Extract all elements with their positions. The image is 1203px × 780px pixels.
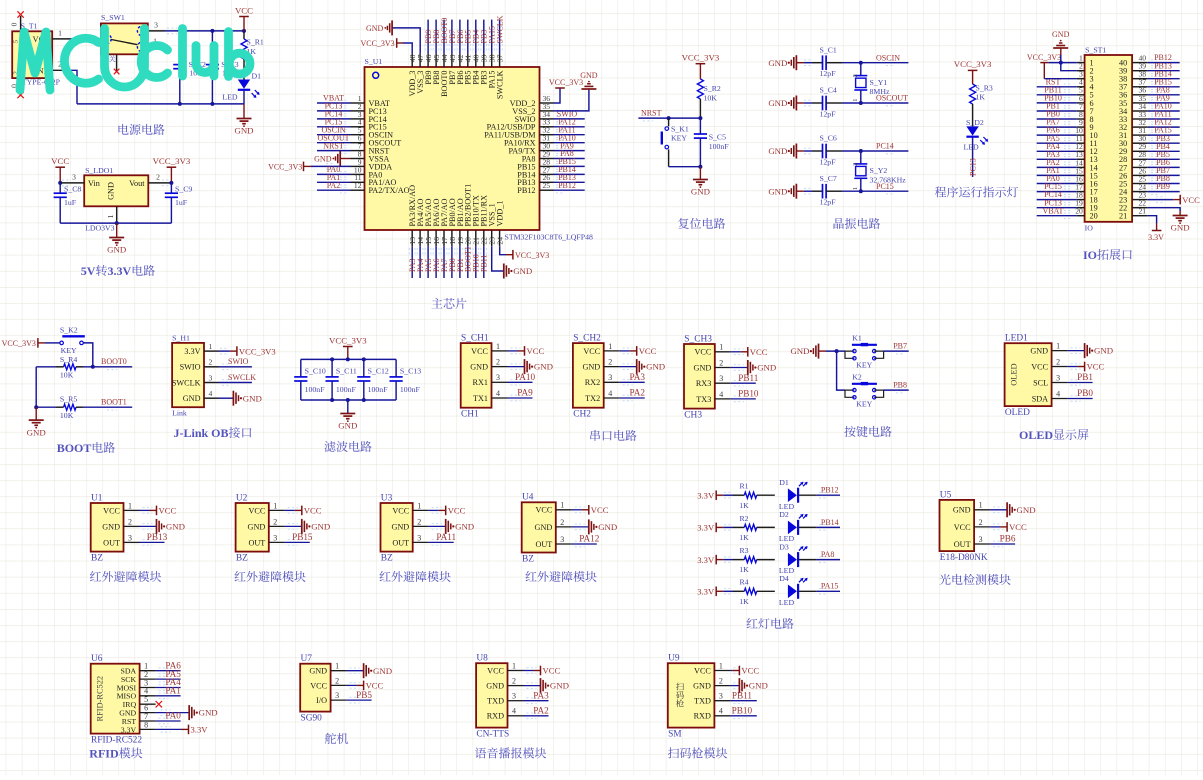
pin 3 (TXD) of U8 (487, 692, 523, 706)
wire U1 pin 30 net PA9 (554, 148, 585, 154)
title servo (325, 733, 348, 744)
svg-text:U4: U4 (522, 493, 534, 503)
net label PB1 (456, 258, 465, 272)
svg-text:PB11: PB11 (732, 690, 752, 700)
svg-text:GND: GND (1017, 505, 1036, 515)
pin 2 (GND) of U2 (248, 517, 285, 531)
net label PB9 (1156, 182, 1170, 191)
wire H1 pin 3 net SWCLK (219, 380, 252, 386)
power port VCC at S_CH1 pin 1 (518, 346, 545, 356)
wire U1 pin 15 net PA5 (425, 246, 431, 278)
net label PA0 (327, 165, 341, 174)
wire ST1 pin 11 net PA5 (1037, 140, 1077, 146)
net label PA7 (1046, 118, 1060, 127)
wire T1 pin2 to ground rail (70, 70, 77, 104)
net label PB13 (1154, 61, 1172, 70)
wire pin 7 net PA0 (156, 718, 181, 724)
junction NRST / C5 (698, 116, 702, 120)
wire ST1 pin 15 net PA1 (1037, 173, 1077, 179)
resistor R2 1K (733, 514, 775, 542)
net label PB10 (472, 254, 481, 272)
svg-text:KEY: KEY (61, 346, 77, 355)
wire U1 pin 17 net PA7 (441, 246, 447, 278)
svg-text:S_K2: S_K2 (60, 325, 78, 334)
ground symbol at U1 VSS_2 (580, 71, 598, 89)
net label PB6 (1156, 158, 1170, 167)
svg-text:GND: GND (183, 394, 201, 403)
svg-text:LED: LED (222, 93, 238, 102)
net label OSCOUT (317, 133, 349, 142)
wire U1 pin 22 net PB11 (481, 246, 487, 278)
ground symbol of key circuit (790, 344, 826, 359)
svg-text:SWIO: SWIO (180, 363, 201, 372)
pin 13 of ST1 (1075, 150, 1084, 159)
wire pin 1 to ground (1068, 348, 1085, 354)
svg-text:0: 0 (10, 22, 19, 26)
resistor S_R1 1K (241, 31, 264, 80)
svg-text:STM32F103C8T6_LQFP48: STM32F103C8T6_LQFP48 (505, 233, 593, 242)
net label PC14 (876, 142, 894, 151)
pin 39 (PB3) of U1 (480, 54, 489, 67)
svg-text:3: 3 (128, 533, 132, 542)
wire filter bottom rail (301, 399, 396, 401)
title main chip (431, 298, 466, 309)
svg-text:GND: GND (314, 155, 332, 164)
pin 1 (GND) of U5 (953, 501, 990, 515)
pin 10 of ST1 (1075, 126, 1084, 135)
pin 25 (PB12) of U1 (540, 181, 554, 190)
junction filter bottom rail (362, 398, 366, 402)
ground symbol at S_C6 (768, 144, 804, 159)
svg-text:1: 1 (1056, 342, 1060, 351)
LED D4 (779, 574, 808, 607)
net label PA5 (165, 669, 181, 679)
pin 36 of ST1 (1132, 86, 1148, 95)
power port VCC of power circuit (235, 5, 253, 31)
wire ST1 pin 33 net PA11 (1148, 116, 1180, 122)
net label PB10 (738, 389, 759, 399)
pin 4 (PC15) of U1 (351, 118, 365, 127)
wire U1 pin 5 net OSCIN (317, 132, 351, 138)
net label PA3 (629, 372, 645, 382)
net label PB7 (893, 341, 907, 350)
title photoelectric detect module (939, 574, 1010, 585)
module U1 (BZ) (91, 493, 124, 563)
net label PA15 (1154, 126, 1172, 135)
svg-text:VCC_3V3: VCC_3V3 (515, 251, 549, 260)
pin 29 (PA8) of U1 (540, 149, 554, 158)
net label PA8 (560, 149, 574, 158)
svg-text:S_CH3: S_CH3 (684, 334, 712, 344)
svg-text:D4: D4 (779, 574, 789, 583)
svg-text:GND: GND (580, 71, 598, 80)
pin 4 (TX2) of S_CH2 (585, 389, 620, 403)
pin 37 (SWCLK) of U1 (496, 54, 505, 67)
wire to key K2 (844, 389, 846, 391)
wire ST1 pin 25 net PB8 (1148, 181, 1180, 187)
svg-text:2: 2 (417, 517, 421, 526)
svg-text:GND: GND (953, 506, 971, 515)
svg-text:K2: K2 (852, 372, 862, 381)
wire pin 1 to power (524, 668, 537, 674)
svg-text:4: 4 (1056, 389, 1060, 398)
svg-text:VCC: VCC (103, 506, 120, 515)
svg-text:3: 3 (560, 535, 564, 544)
net label SWCLK (228, 373, 256, 382)
svg-text:S_C11: S_C11 (336, 367, 357, 376)
wire ST1 pin 5 net PB11 (1037, 92, 1077, 98)
svg-text:2: 2 (335, 676, 339, 685)
svg-text:OUT: OUT (248, 538, 265, 547)
wire ST1 pin 32 net PA12 (1148, 124, 1180, 130)
net label PA2 (629, 388, 645, 398)
svg-text:PA2: PA2 (327, 181, 341, 190)
junction LDO Vout / C9 (169, 181, 173, 185)
capacitor S_C12 100nF (357, 359, 389, 400)
pin 2 (GND) of U8 (486, 677, 523, 691)
pin 3 of S_H1 (204, 373, 219, 382)
net label PA0 (1046, 174, 1060, 183)
wire pin 2 to ground (524, 683, 541, 689)
wire LED to ground rail (243, 91, 245, 104)
svg-text:OLED: OLED (1005, 408, 1030, 418)
push button K2 KEY (845, 372, 884, 408)
wire to key K1 (844, 350, 846, 352)
svg-text:RFID: RFID (89, 747, 119, 761)
wire U1 pin 27 net PB14 (554, 172, 585, 178)
net label PA10 (1154, 102, 1172, 111)
svg-text:U2: U2 (236, 493, 248, 503)
ground symbol at S_CH3 pin 2 (748, 360, 776, 375)
svg-text:VCC_3V3: VCC_3V3 (360, 39, 394, 48)
wire pin 1 to power (730, 668, 743, 674)
svg-text:1K: 1K (739, 565, 749, 574)
wire U1 pin 4 net PC15 (317, 124, 351, 130)
pin 40 (PB4) of U1 (472, 54, 481, 67)
svg-text:TX2: TX2 (585, 394, 600, 403)
wire U1 pin 12 net PA2 (317, 187, 351, 193)
net label PB10 (732, 706, 753, 716)
wire pin 2 to ground (285, 524, 302, 530)
resistor R3 1K (733, 546, 775, 574)
svg-text:GND: GND (234, 126, 253, 136)
svg-text:GND: GND (534, 362, 553, 372)
wire ground rail vertical (35, 367, 37, 407)
pin 3 (OUT) of U5 (954, 535, 990, 549)
pin 3 (RX2) of S_CH2 (585, 373, 620, 387)
svg-text:1K: 1K (739, 597, 749, 606)
pin 19 (PB1/AO) of U1 (456, 230, 465, 246)
pin 14 of ST1 (1075, 158, 1084, 167)
power port VCC at LDO input (51, 156, 69, 183)
svg-text:GND: GND (1052, 30, 1070, 39)
wire U1 pin 1 net VBAT (317, 100, 351, 106)
connector S_ST1 40-pin header (1085, 46, 1133, 233)
svg-text:S_Y2: S_Y2 (870, 166, 888, 175)
wire U1 VSS_1 to ground (492, 246, 504, 271)
ground symbol at U1 VSS_3 (366, 20, 392, 35)
svg-text:RX3: RX3 (696, 379, 711, 388)
svg-text:Link: Link (172, 409, 187, 418)
module U5 (E18-D80NK) (940, 490, 988, 563)
wire pin 2 to ground (572, 524, 589, 530)
wire ST1 pin 13 net PA3 (1037, 157, 1077, 163)
wire U1 pin 10 net PA0 (317, 172, 351, 178)
switch S_SW1 (101, 13, 148, 62)
wire U1 pin 46 net PB9 (425, 20, 431, 54)
net label OSCIN (321, 125, 345, 134)
pin 45 (PB8) of U1 (432, 54, 441, 67)
wire ST1 pin 18 net PC14 (1037, 197, 1077, 203)
pin 31 (PA10/RX) of U1 (540, 134, 554, 143)
svg-text:GND: GND (691, 187, 710, 197)
svg-text:PA3: PA3 (629, 372, 645, 382)
net label PB0 (1077, 388, 1093, 398)
svg-text:Vin: Vin (88, 179, 100, 188)
pin 15 (PA5/AO) of U1 (424, 230, 433, 246)
svg-text:U1: U1 (91, 493, 103, 503)
capacitor S_C13 100nF (390, 359, 422, 400)
wire pin 3 net PB11 (730, 698, 756, 704)
svg-text:2: 2 (128, 517, 132, 526)
svg-text:1: 1 (417, 501, 421, 510)
svg-text:LDO3V3: LDO3V3 (85, 224, 115, 233)
junction OSCOUT / crystal (859, 101, 863, 105)
svg-text:VCC: VCC (639, 346, 657, 356)
wire ST1 pin 9 net PA7 (1037, 124, 1077, 130)
junction filter top rail (362, 357, 366, 361)
svg-text:100nF: 100nF (709, 142, 730, 151)
net label PB15 (292, 532, 313, 542)
svg-text:10K: 10K (60, 371, 74, 380)
wire pin 4 net PA2 (620, 395, 645, 401)
svg-text:SDA: SDA (1032, 394, 1048, 403)
capacitor S_C1 12pF (813, 45, 843, 78)
svg-text:VCC: VCC (51, 156, 69, 166)
module U6 (RFID-RC522) (91, 654, 143, 746)
module S_CH1 (CH1) (461, 334, 492, 420)
wire pin 3 net PA10 (508, 380, 533, 386)
svg-text:2: 2 (852, 163, 859, 166)
pin 2 (VCC) of U7 (310, 676, 346, 690)
svg-text:GND: GND (27, 427, 46, 437)
LED S_D1 (222, 72, 261, 102)
power port VCC at U9 pin 1 (732, 666, 759, 676)
wire power to key S_K2 (45, 342, 60, 344)
title scanner gun module (668, 747, 727, 758)
push button S_K1 KEY (662, 118, 689, 167)
wire R4 net BOOT0 (83, 364, 132, 370)
svg-text:VCC: VCC (954, 523, 971, 532)
net label PB11 (1044, 85, 1062, 94)
svg-text:PB9: PB9 (1156, 182, 1170, 191)
pin 48 (VDD_3) of U1 (408, 54, 417, 67)
svg-text:1: 1 (58, 28, 62, 37)
junction BOOT0 row (91, 365, 95, 369)
wire ST1 pin 10 net PA6 (1037, 132, 1077, 138)
svg-text:GND: GND (166, 522, 185, 532)
pin 22 (PB11/RX) of U1 (480, 230, 489, 246)
svg-text:3.3V: 3.3V (697, 555, 715, 565)
svg-text:PA2: PA2 (533, 706, 549, 716)
ground symbol at S_C4 (768, 96, 804, 111)
svg-text:2: 2 (608, 358, 612, 367)
net label PB11 (480, 255, 489, 273)
svg-text:1uF: 1uF (175, 198, 188, 207)
net label PB3 (480, 30, 489, 44)
net label BOOT0 (440, 18, 449, 44)
svg-text:S_C7: S_C7 (820, 174, 837, 183)
svg-text:2: 2 (852, 74, 859, 77)
power port VCC at LED1 pin 2 (1078, 362, 1105, 372)
svg-text:PA3: PA3 (533, 690, 549, 700)
svg-text:U8: U8 (476, 654, 488, 664)
svg-text:1: 1 (719, 343, 723, 352)
svg-text:VCC: VCC (392, 506, 409, 515)
wire ST1 pin 29 net PB4 (1148, 149, 1180, 155)
pin 24 of ST1 (1132, 183, 1148, 192)
svg-text:CH2: CH2 (573, 410, 591, 420)
wire U1 pin 33 net PA12 (554, 124, 585, 130)
svg-text:BZ: BZ (91, 554, 103, 564)
net label PA3 (408, 259, 417, 273)
wire power to R2 (723, 525, 733, 531)
svg-text:LED: LED (964, 143, 980, 152)
title filter circuit (324, 441, 371, 452)
pin 0 top of S_T1 (no connect) (10, 11, 24, 31)
net label PA11 (436, 532, 456, 542)
svg-text:R4: R4 (739, 578, 748, 587)
svg-text:GND: GND (107, 182, 116, 200)
wire ST1 pin 21 to power (1148, 216, 1157, 223)
net label PB10 (1044, 94, 1062, 103)
pin 47 (VSS_3) of U1 (416, 54, 425, 67)
wire ST1 pin 8 net PB0 (1037, 116, 1077, 122)
net label PA9 (1156, 94, 1170, 103)
svg-text:S_R3: S_R3 (976, 84, 993, 93)
junction C3 ground rail (210, 102, 214, 106)
pin 2 (VCC) of U5 (954, 518, 990, 532)
net label PA7 (440, 259, 449, 273)
wire pin 3 net PB1 (1068, 380, 1093, 386)
ground symbol GND below ST1 (1171, 211, 1190, 233)
ground rail wire of power circuit (77, 103, 244, 105)
title J-Link OB interface (174, 426, 252, 440)
svg-text:3.3V: 3.3V (121, 725, 137, 734)
svg-text:PA12: PA12 (579, 534, 599, 544)
module S_H1 (Link) J-Link OB (172, 333, 204, 417)
pin 1 (VCC) of U3 (392, 501, 428, 515)
svg-text:GND: GND (646, 362, 665, 372)
wire U1 pin 26 net PB13 (554, 180, 585, 186)
ground symbol at U3 pin 2 (446, 519, 474, 534)
svg-text:GND: GND (768, 146, 787, 156)
pin 22 of ST1 (1132, 199, 1148, 208)
crystal S_Y1 8MHz (852, 63, 890, 103)
svg-text:2: 2 (512, 677, 516, 686)
pin 1 (GND) of LED1 (1030, 342, 1067, 356)
pin 17 of ST1 (1075, 183, 1084, 192)
svg-text:U9: U9 (668, 654, 680, 664)
resistor S_R2 10K (697, 79, 721, 118)
junction BOOT1 row (34, 405, 38, 409)
resistor S_R5 10K (56, 395, 83, 421)
svg-text:12pF: 12pF (820, 198, 837, 207)
svg-text:R3: R3 (739, 546, 748, 555)
svg-text:1: 1 (273, 501, 277, 510)
svg-text:VDD_1: VDD_1 (496, 201, 505, 227)
svg-text:PB5: PB5 (356, 690, 372, 700)
svg-text:GND: GND (455, 522, 474, 532)
pin 2 (SCK) of U6 (121, 670, 156, 684)
wire pin 2 to ground (508, 364, 525, 370)
pin 25 of ST1 (1132, 174, 1148, 183)
pin 4 (RXD) of U8 (487, 707, 524, 721)
resistor S_R3 1K (970, 84, 993, 127)
ground symbol GND above ST1 (1052, 30, 1070, 55)
bottom pins of S_SW1 (no connect) (114, 54, 145, 75)
svg-text:S_C4: S_C4 (820, 86, 837, 95)
pin 3 of S_SW1 (148, 20, 165, 31)
svg-text:3.3V: 3.3V (697, 523, 715, 533)
pin 20 of ST1 (1075, 207, 1084, 216)
svg-text:CH1: CH1 (461, 410, 479, 420)
pin 38 of ST1 (1132, 70, 1148, 79)
svg-text:3: 3 (273, 533, 277, 542)
wire S_C1 net OSCIN (842, 60, 908, 66)
svg-text:VCC: VCC (448, 506, 466, 516)
svg-text:PC13: PC13 (969, 158, 978, 176)
ground symbol at S_C1 (768, 55, 804, 70)
capacitor S_C8 1uF (54, 183, 82, 223)
svg-text:VCC: VCC (583, 347, 600, 356)
svg-text:S_R2: S_R2 (704, 84, 721, 93)
svg-text:PB13: PB13 (147, 532, 168, 542)
power port VCC at ST1 pin 23 (1173, 195, 1200, 205)
net label NRST (641, 108, 662, 117)
ground symbol GND of BOOT circuit (27, 407, 46, 437)
pin 19 of ST1 (1075, 199, 1084, 208)
net label BOOT1 (101, 398, 127, 407)
pin 2 (GND) of S_CH1 (470, 358, 507, 372)
svg-text:OUT: OUT (535, 540, 552, 549)
wire pin 1 to power (429, 508, 442, 514)
net label PC13 (325, 102, 343, 111)
junction C5 / ground (698, 165, 702, 169)
pin 27 of ST1 (1132, 158, 1148, 167)
svg-text:VCC_3V3: VCC_3V3 (682, 53, 720, 63)
svg-text:VCC: VCC (159, 506, 177, 516)
net label SWIO (228, 357, 249, 366)
module U7 (SG90) (300, 654, 330, 724)
wire D4 net PA15 (799, 589, 840, 595)
net label PC14 (325, 110, 343, 119)
net label PB15 (1154, 77, 1172, 86)
svg-text:GND: GND (311, 522, 330, 532)
pin 4 (RXD) of U9 (694, 707, 731, 721)
net label PB8 (1156, 174, 1170, 183)
wire pin 2 to ground (620, 364, 637, 370)
svg-text:VCC: VCC (310, 681, 327, 690)
svg-text:8MHz: 8MHz (870, 87, 890, 96)
pin 39 of ST1 (1132, 62, 1148, 71)
net label PB5 (356, 690, 372, 700)
svg-text:1: 1 (209, 342, 213, 351)
pin 1 of S_H1 (204, 342, 219, 351)
wire U1 pin 29 net PA8 (554, 156, 585, 162)
pin 23 of ST1 (1132, 191, 1148, 200)
resistor R4 1K (733, 578, 775, 606)
